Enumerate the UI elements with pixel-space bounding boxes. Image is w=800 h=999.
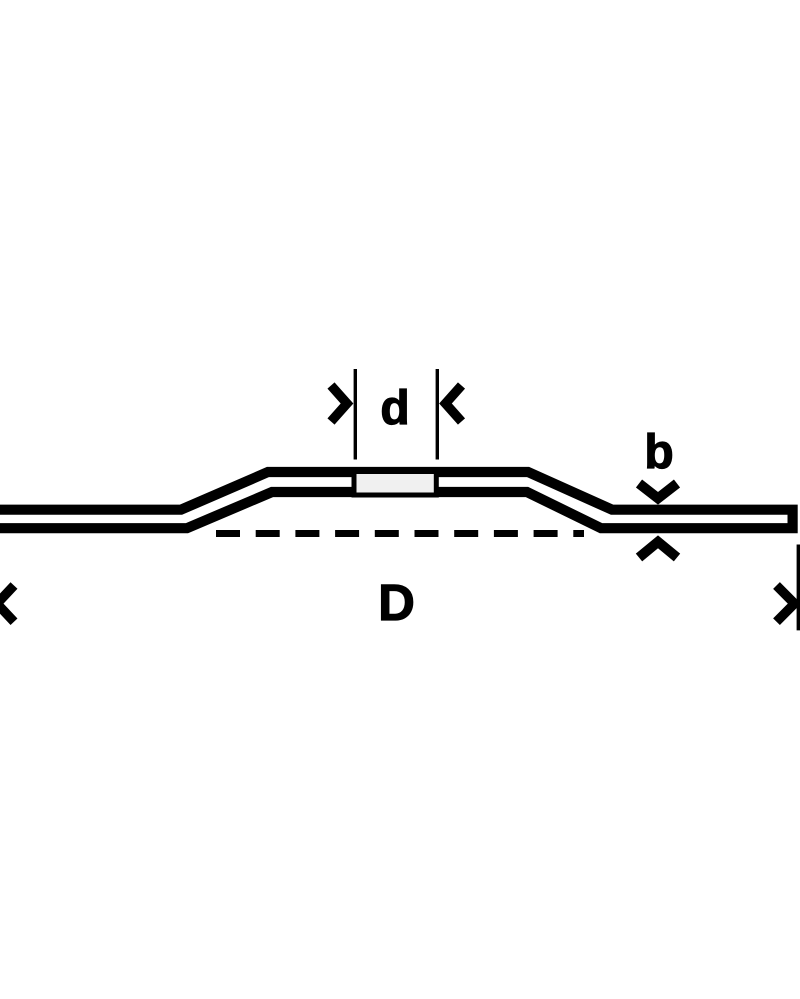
d arrow right	[446, 386, 462, 422]
svg-text:b: b	[644, 426, 673, 479]
d extension line left	[354, 369, 357, 460]
hidden diameter dashed line	[216, 530, 584, 537]
D arrow right	[777, 586, 795, 622]
bore rectangle	[354, 472, 436, 496]
D extension line right	[797, 545, 800, 631]
svg-text:d: d	[380, 382, 409, 435]
wheel cross-section outline	[0, 472, 793, 528]
d arrow left	[331, 386, 347, 422]
svg-text:D: D	[378, 574, 415, 631]
D arrow left	[0, 586, 14, 622]
b arrow upper (down)	[639, 484, 677, 499]
b arrow lower (up)	[639, 542, 677, 558]
d extension line right	[436, 369, 439, 460]
